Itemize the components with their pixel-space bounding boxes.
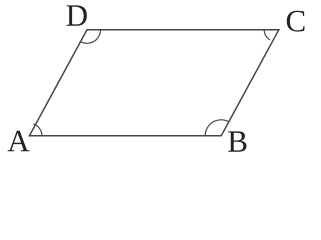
label D <box>67 5 87 25</box>
label C <box>287 11 305 32</box>
angle arc at A <box>33 124 41 136</box>
label A <box>8 131 30 151</box>
angle arc at D <box>80 30 101 43</box>
parallelogram ABCD <box>29 30 278 136</box>
label B <box>228 131 246 151</box>
angle arc at B <box>205 120 229 136</box>
angle arc at C <box>264 30 270 40</box>
